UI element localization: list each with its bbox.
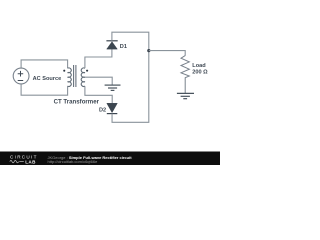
wire: junction to load	[149, 51, 185, 56]
wire: secondary bottom to D2 anode	[85, 86, 112, 103]
node junction on right rail	[147, 49, 150, 52]
diode D1 cathode bar	[106, 40, 117, 42]
svg-text:200 Ω: 200 Ω	[192, 70, 208, 76]
ground (center tap)	[105, 85, 121, 90]
svg-text:CT Transformer: CT Transformer	[54, 99, 100, 106]
svg-text:Load: Load	[192, 63, 206, 69]
diode D1 (pointing up)	[107, 42, 118, 49]
wire: primary loop bottom rail	[21, 84, 68, 95]
resistor R1 Load zigzag	[181, 56, 189, 94]
wire: D1 cathode up to top rail	[112, 32, 149, 50]
svg-text:LAB: LAB	[25, 159, 36, 164]
transformer primary phase dot	[63, 70, 65, 72]
wire: primary loop top rail	[21, 60, 68, 68]
diode D2 (pointing down)	[107, 103, 118, 112]
svg-text:D2: D2	[99, 108, 106, 114]
transformer T1 secondary winding	[81, 68, 85, 86]
CircuitLab logo waveform + LAB	[10, 160, 24, 162]
svg-text:D1: D1	[120, 44, 127, 50]
AC source minus sign	[18, 80, 24, 82]
transformer secondary phase dot	[86, 70, 88, 72]
footer black bar	[0, 152, 220, 166]
ground (below load)	[177, 93, 194, 98]
AC source V1 circle	[13, 68, 29, 84]
transformer core bar left	[73, 65, 75, 87]
wire: secondary center tap to ground	[85, 77, 112, 85]
AC source plus sign	[18, 71, 24, 77]
diode D2 cathode bar	[107, 113, 118, 115]
wire: secondary top to D1 anode	[85, 49, 112, 68]
svg-text:http://circuitlab.com/c6qt66e: http://circuitlab.com/c6qt66e	[48, 159, 99, 164]
wire: D2 cathode to bottom rail and right rail	[112, 51, 149, 123]
svg-text:AC Source: AC Source	[33, 76, 62, 82]
transformer core bar right	[75, 65, 77, 87]
transformer T1 primary winding	[68, 68, 72, 87]
